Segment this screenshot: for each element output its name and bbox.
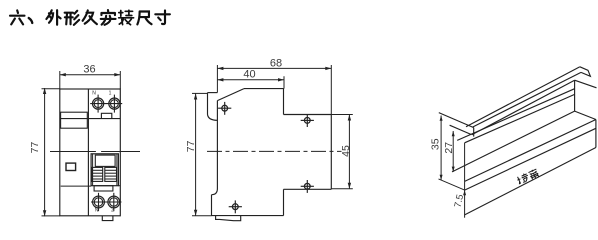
front view: handle frame bottom extension [118,185,120,187]
svg-text:45: 45 [340,145,352,157]
svg-text:68: 68 [270,57,282,69]
side view: top edge [244,88,284,90]
side view: center line (dash-dot) [207,150,342,152]
side view: mounting hole marker front-top [218,102,231,115]
svg-text:77: 77 [185,140,197,152]
rail: apron top fold line [465,120,596,182]
svg-text:1: 1 [109,90,112,96]
rail: web upper fold line 2 [465,94,575,142]
rail: end-cut vertical at T1 [473,128,475,137]
svg-text:36: 36 [83,64,95,76]
section title 六、外形及安装尺寸 (hand-drawn glyphs) [10,10,170,25]
dimension 36 extension lines [59,71,61,89]
side view: nose top step [208,92,218,94]
side view: nose front edge [207,93,209,115]
rail: apron upper edge [465,128,596,190]
front view: mid seam line left segment [50,151,96,153]
front view: label window [61,112,88,128]
rail: top flange front edge [473,72,582,127]
rail: top flange back edge [466,67,580,127]
rail: flange right end face [580,67,591,77]
side view: front slant [217,89,244,101]
front view: top screws horizontal axis line [90,103,122,105]
dimension 68 extension lines [216,65,218,93]
front view: handle toggle right (hatched) [105,167,117,181]
side view: back bottom notch vertical [283,189,285,215]
front view: terminal screw top-right [109,95,120,113]
svg-text:77: 77 [29,142,41,154]
side view: front face [216,101,218,189]
side view: back edge [330,115,332,190]
front view: bottom screws horizontal axis line [91,201,122,203]
side view: lower front edge [211,195,213,216]
rail: web bottom edge [452,111,575,172]
side view: back top notch vertical [283,89,285,115]
front view: terminal screw bottom-right [108,193,120,211]
front view: terminal screw bottom-left [93,193,105,211]
dimension 35 line [440,116,442,181]
svg-text:40: 40 [243,69,255,81]
front view: lower seam line [61,185,91,187]
dimension 27 line [452,131,454,172]
svg-text:N: N [92,90,96,96]
rail: apron right end edge [595,120,597,148]
rail: label 按需 (hand-drawn glyphs, rotated) [516,168,539,185]
svg-text:35: 35 [430,138,442,150]
side view: nose fillet [208,115,218,121]
rail: web right end edge [574,80,576,111]
rail: apron bottom edge [465,148,596,215]
svg-text:N: N [95,208,99,214]
svg-text:27: 27 [443,142,455,154]
side view: bottom edge [212,215,284,217]
rail: web bottom right end edge [575,111,596,119]
front view: mid seam line right segment [101,151,140,153]
dimension 77 line left figure [44,88,46,216]
front view: notch under top screws [101,113,111,118]
dimension 35 bottom oblique extension [439,179,465,190]
front view: module split line [87,89,89,216]
dimension 45 line [348,115,350,189]
front view: handle frame inner walls [92,154,94,186]
front view: top seam line [60,118,121,120]
dimension 7.5 arrow [463,190,466,195]
dimension 77 line middle figure [195,94,197,216]
dimension 68 line [217,67,331,69]
dimension 77 extension lines middle figure [192,92,208,94]
front view: plate below handle [94,186,113,191]
side view: back top notch horizontal [284,114,332,116]
dimension 40 line [217,79,284,81]
side view: DIN clip tab [216,216,241,221]
front view: breaker body outline [60,89,121,216]
front view: handle window [95,155,115,166]
front view: handle toggle left (hatched) [92,167,103,181]
dimension 36 line with arrows [60,74,121,76]
dimension 40 extension line right [283,76,285,88]
rail: oblique end-cut edge T1 [439,113,474,128]
rail: channel top wall right end edge [575,80,597,88]
side view: mounting hole marker back-bottom [301,180,314,193]
side view: mounting hole marker front-bottom [229,200,242,213]
rail: left end vertical edge [464,143,466,218]
side view: back bottom notch horizontal [284,188,332,190]
dimension 77 extension lines left figure [42,88,60,90]
side view: mounting hole marker back-top [301,114,314,127]
rail: oblique end-cut edge T2 [450,125,472,134]
front view: terminal screw top-left [93,95,104,113]
rail: web upper fold line 1 [457,89,574,141]
front view: test button [66,163,76,170]
side view: bottom front step fillet [212,189,218,195]
svg-text:2: 2 [111,208,114,214]
front view: bottom DIN tab [102,216,113,221]
rail: web top edge [472,80,575,135]
front view: handle frame outer [91,154,118,186]
dimension 45 extension lines [331,114,353,116]
